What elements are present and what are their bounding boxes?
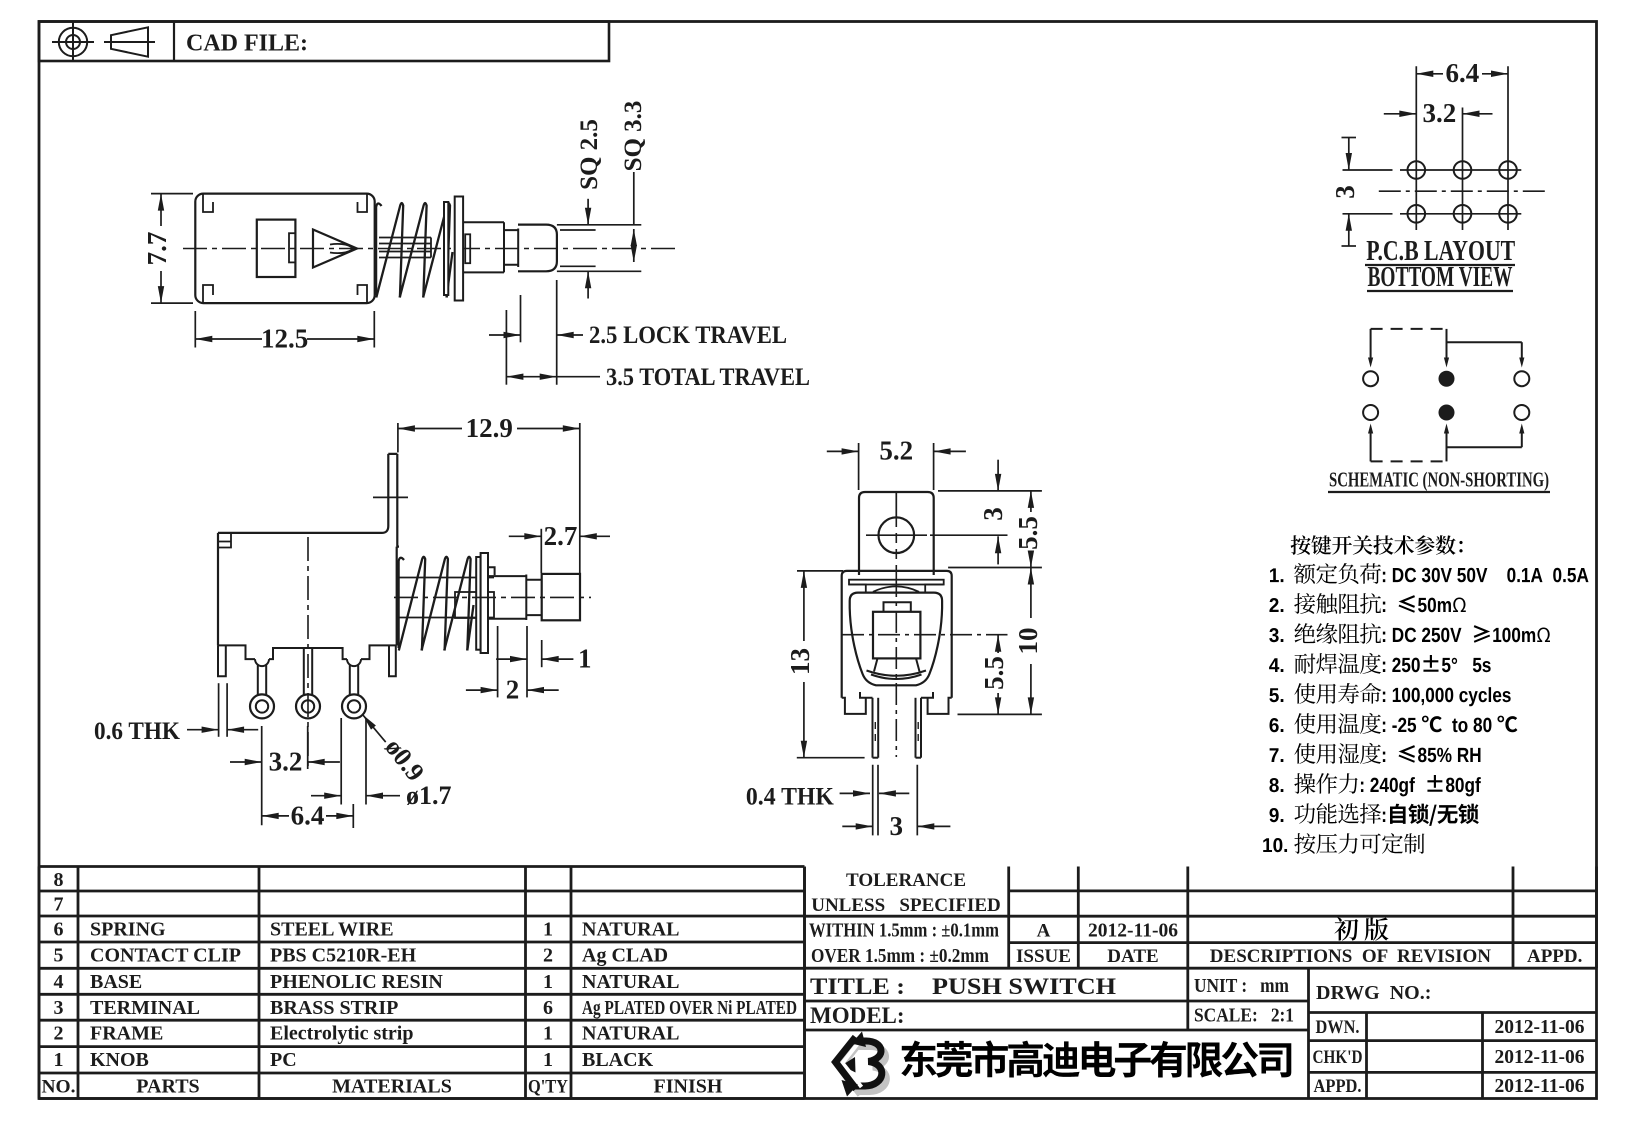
dimension 3 line and arrows (pins) (842, 823, 950, 829)
pcb center line (1379, 190, 1545, 192)
schematic wire middle top with arrow (1444, 329, 1449, 368)
dimension 3.2 pcb line (1384, 111, 1493, 118)
dimension 1 extension lines (498, 626, 542, 697)
svg-text:WITHIN 1.5mm : ±0.1mm: WITHIN 1.5mm : ±0.1mm (809, 921, 999, 942)
svg-text:2: 2 (543, 945, 553, 967)
dimension 13 extension lines (797, 571, 865, 758)
svg-text:FRAME: FRAME (90, 1023, 163, 1045)
svg-text:PC: PC (270, 1049, 297, 1071)
view2 terminal 1 neck (255, 659, 269, 695)
dimension 12.5 line and arrows (195, 336, 374, 342)
svg-text:FINISH: FINISH (654, 1076, 723, 1098)
view2 vertical center line (307, 537, 309, 770)
button extension lines (557, 225, 641, 271)
dimension 6.4 pcb line (1416, 71, 1508, 78)
svg-text:2: 2 (506, 675, 520, 705)
svg-text:2012-11-06: 2012-11-06 (1495, 1017, 1585, 1038)
view1 shaft section (463, 222, 504, 272)
view1 body corner notch top-left (203, 194, 213, 212)
view3 frame lip (849, 580, 944, 585)
dimension 5.2 line and arrows (827, 448, 966, 454)
view2 center line (394, 596, 591, 598)
view2 shaft section (488, 575, 526, 621)
view2 terminal 1 eyelet (250, 694, 274, 718)
dimension 2.7 extension line (540, 529, 542, 573)
view1 body corner notch bottom-right (358, 285, 368, 303)
dimension 1 line and arrows (496, 656, 573, 662)
dimension 0.4 THK arrows (840, 790, 910, 796)
svg-text:Electrolytic strip: Electrolytic strip (270, 1023, 413, 1045)
svg-text:3.2: 3.2 (1423, 98, 1457, 128)
view1 spring washer plates (444, 197, 463, 301)
view3 mounting tab (859, 492, 934, 575)
view2 terminal 3 eyelet (342, 694, 366, 718)
pcb layout pads (1408, 161, 1517, 222)
dimension dia 1.7 extension lines (341, 718, 366, 805)
first-angle projection symbol - cone view (104, 27, 155, 56)
svg-text:1: 1 (543, 971, 553, 993)
svg-text:CAD FILE:: CAD FILE: (186, 31, 308, 57)
view2 terminal 2 eyelet (296, 694, 320, 718)
dimension 7.7 line and arrows (158, 194, 164, 304)
tolerance table text (809, 870, 1178, 967)
svg-text:3: 3 (54, 997, 64, 1019)
svg-text:SQ 3.3: SQ 3.3 (620, 101, 647, 172)
company logo shadow (840, 1043, 886, 1095)
svg-text:TITLE :: TITLE : (810, 974, 905, 999)
svg-text:BOTTOM VIEW: BOTTOM VIEW (1368, 262, 1513, 293)
dimension 5.5 upper line (1028, 491, 1034, 568)
svg-text:BRASS STRIP: BRASS STRIP (270, 997, 398, 1019)
spec item 9 功能选择 (1269, 808, 1278, 822)
svg-text:TERMINAL: TERMINAL (90, 997, 200, 1019)
svg-text:4: 4 (54, 971, 64, 993)
spec item 7 使用湿度 (1270, 748, 1279, 762)
revision descriptions text (1210, 946, 1583, 967)
schematic wire left bottom with arrow (1368, 424, 1373, 462)
view3 right foot (921, 692, 952, 714)
svg-text:APPD.: APPD. (1527, 946, 1582, 967)
svg-text:1: 1 (543, 919, 553, 941)
view3 frame notch right (925, 585, 944, 592)
view2 spring coils (399, 557, 474, 651)
view1 shaft neck (504, 229, 518, 268)
schematic solid wire top (1447, 342, 1525, 367)
svg-text:PHENOLIC RESIN: PHENOLIC RESIN (270, 971, 443, 993)
view1 knob button (518, 225, 557, 272)
spec item 6 使用温度 (1269, 718, 1278, 732)
svg-text:BLACK: BLACK (582, 1049, 654, 1071)
svg-text:2.5 LOCK TRAVEL: 2.5 LOCK TRAVEL (589, 322, 787, 349)
view2 plunger bar through spring (399, 578, 494, 619)
view2 bracket plate (382, 454, 400, 547)
company name 东莞市高迪电子有限公司 (901, 1040, 936, 1077)
svg-text:2012-11-06: 2012-11-06 (1495, 1076, 1585, 1097)
view1 center line (183, 248, 678, 250)
svg-text:NO.: NO. (42, 1077, 76, 1098)
view2 knob button (542, 574, 580, 620)
spec item 1 额定负荷 (1270, 568, 1279, 582)
schematic wire left top with arrow (1368, 329, 1373, 368)
title block grid (805, 968, 1597, 1098)
svg-text:DATE: DATE (1107, 946, 1158, 967)
view3 horizontal center line (842, 634, 1008, 636)
svg-text:APPD.: APPD. (1314, 1076, 1362, 1097)
dimension 3 vertical (tab hole) (995, 460, 1001, 565)
dimension 12.9 extension lines (398, 423, 580, 573)
BOM header row text (42, 1076, 723, 1098)
svg-text:ø1.7: ø1.7 (406, 781, 452, 810)
view1 body corner notch bottom-left (203, 285, 213, 303)
view1 shaft inner detail (465, 234, 470, 263)
view2 shaft neck (526, 580, 541, 615)
svg-text:1: 1 (578, 644, 592, 674)
svg-text:DWN.: DWN. (1316, 1017, 1360, 1038)
schematic dashed knob outline (1371, 329, 1447, 462)
view3 right extension lines (930, 491, 1042, 715)
schematic wire middle bottom with arrow (1444, 424, 1449, 462)
view3 pin left (873, 698, 879, 758)
svg-text:TOLERANCE: TOLERANCE (846, 870, 966, 891)
svg-text:6.4: 6.4 (1446, 58, 1480, 88)
svg-text:10: 10 (1013, 628, 1043, 655)
view1 spring coils (376, 203, 452, 298)
view2 body outline (218, 533, 397, 646)
svg-text:DRWG NO.:: DRWG NO.: (1316, 982, 1431, 1004)
svg-text:5.5: 5.5 (979, 656, 1009, 690)
BOTTOM VIEW label (1367, 262, 1513, 293)
view2 right foot (389, 645, 396, 676)
svg-text:SPRING: SPRING (90, 919, 166, 941)
svg-text:1: 1 (54, 1049, 64, 1071)
spec item 3 绝缘阻抗 (1269, 628, 1278, 642)
company logo mark (836, 1032, 882, 1097)
svg-text:3: 3 (1330, 185, 1360, 199)
svg-text:Ag PLATED OVER Ni PLATED: Ag PLATED OVER Ni PLATED (582, 997, 797, 1019)
svg-text:UNIT : mm: UNIT : mm (1194, 975, 1289, 997)
svg-text:5.5: 5.5 (1013, 516, 1043, 550)
pin extension lines (873, 765, 918, 836)
view3 frame outline (842, 571, 952, 698)
first-angle projection symbol - target circle (52, 23, 94, 62)
dimension 0.6 THK arrows (187, 683, 258, 737)
svg-text:Q'TY: Q'TY (528, 1077, 568, 1098)
view3 base body (850, 593, 942, 686)
svg-text:ISSUE: ISSUE (1016, 946, 1071, 967)
dimension 13 line and arrows (801, 571, 807, 758)
spec item 8 操作力 (1269, 778, 1278, 792)
svg-text:NATURAL: NATURAL (582, 971, 679, 993)
SCHEMATIC label (1328, 468, 1550, 493)
svg-text:MODEL:: MODEL: (810, 1003, 905, 1028)
svg-text:1: 1 (543, 1023, 553, 1045)
svg-text:7.7: 7.7 (142, 232, 172, 266)
dimension 12.5 extension lines (195, 311, 374, 348)
dimension SQ 3.3 arrows (631, 172, 637, 262)
tolerance table grid (805, 867, 1597, 1099)
spec item 2 接触阻抗 (1269, 598, 1278, 612)
view3 vertical center line (895, 575, 897, 757)
svg-text:12.9: 12.9 (466, 413, 513, 443)
svg-text:SCALE: 2:1: SCALE: 2:1 (1194, 1005, 1294, 1027)
view2 body top-left notch (218, 533, 231, 548)
dimension 3 pcb extension lines (1343, 170, 1393, 214)
dimension 7.7 extension lines (151, 194, 193, 304)
view3 tab hole (879, 517, 915, 553)
view3 dome arc (873, 586, 919, 591)
dimension 2.7 line and arrows (509, 533, 610, 539)
view2 left foot (218, 645, 226, 676)
P.C.B LAYOUT label (1365, 236, 1515, 267)
svg-text:DESCRIPTIONS OF REVISION: DESCRIPTIONS OF REVISION (1210, 946, 1491, 967)
svg-text:MATERIALS: MATERIALS (332, 1076, 452, 1098)
dimension dia 0.9 leader (363, 715, 386, 743)
svg-text:SCHEMATIC (NON-SHORTING): SCHEMATIC (NON-SHORTING) (1329, 468, 1549, 492)
dimension 3 pcb line and arrows (1342, 138, 1357, 247)
dimension 2 line and arrows (466, 687, 559, 693)
svg-text:3.5 TOTAL TRAVEL: 3.5 TOTAL TRAVEL (606, 364, 810, 391)
svg-text:8: 8 (54, 869, 64, 891)
BOM table rows text (54, 869, 798, 1071)
CAD FILE title box (39, 22, 609, 62)
schematic solid wire bottom (1447, 424, 1525, 448)
dimension 6.4 extension lines (352, 804, 354, 828)
dimension 3.5 TOTAL TRAVEL (506, 374, 600, 380)
view3 plunger top (884, 602, 911, 612)
dimension 12.9 line (398, 425, 580, 431)
view3 pin right (916, 698, 922, 758)
svg-text:2: 2 (54, 1023, 64, 1045)
dimension 2.5 LOCK TRAVEL (489, 332, 583, 338)
view1 body corner notch top-right (358, 194, 368, 212)
svg-text:BASE: BASE (90, 971, 142, 993)
svg-text:6: 6 (54, 919, 64, 941)
view2 bottom profile (218, 645, 397, 659)
pcb layout pad crosshair lines (1400, 66, 1521, 230)
svg-text:PUSH SWITCH: PUSH SWITCH (932, 974, 1116, 999)
view2 terminal 3 neck (347, 659, 361, 695)
svg-text:6.4: 6.4 (291, 800, 325, 830)
spec title 按键开关技术参数 (1291, 535, 1311, 555)
svg-text:5: 5 (54, 945, 64, 967)
svg-text:UNLESS SPECIFIED: UNLESS SPECIFIED (811, 895, 1001, 916)
svg-text:Ag CLAD: Ag CLAD (582, 945, 668, 967)
svg-text:12.5: 12.5 (261, 324, 308, 354)
svg-text:5.2: 5.2 (879, 436, 913, 466)
dimension 5.5 lower line (995, 635, 1001, 715)
svg-text:7: 7 (54, 894, 64, 916)
spec item 5 使用寿命 (1269, 688, 1278, 702)
view2 bracket tick mark (373, 496, 408, 498)
svg-text:NATURAL: NATURAL (582, 919, 679, 941)
view3 frame notch left (849, 585, 866, 592)
svg-text:NATURAL: NATURAL (582, 1023, 679, 1045)
view2 washer plates (476, 553, 488, 653)
revision row 初版 (1334, 917, 1358, 940)
svg-text:OVER 1.5mm : ±0.2mm: OVER 1.5mm : ±0.2mm (811, 946, 989, 967)
svg-text:3: 3 (978, 507, 1008, 521)
dimension 5.2 extension lines (859, 443, 934, 490)
dimension 10 line (1028, 568, 1034, 715)
title block text (810, 974, 1585, 1097)
view1 plunger rod through spring (379, 238, 431, 258)
view1 switch body outline (195, 194, 374, 304)
svg-text:1: 1 (543, 1049, 553, 1071)
svg-text:KNOB: KNOB (90, 1049, 149, 1071)
svg-text:0.4 THK: 0.4 THK (746, 784, 835, 811)
svg-text:3.2: 3.2 (269, 747, 303, 777)
svg-text:2.7: 2.7 (544, 521, 578, 551)
spec item 10 按压力可定制 (1263, 838, 1272, 852)
svg-text:6: 6 (543, 997, 553, 1019)
spec item 4 耐焊温度 (1269, 658, 1279, 672)
view3 left foot (842, 692, 873, 714)
dimension dia 1.7 line and arrows (311, 793, 400, 799)
lock travel extension lines (506, 280, 556, 385)
svg-text:2012-11-06: 2012-11-06 (1088, 921, 1178, 942)
dimension 6.4 line and arrows (262, 813, 354, 819)
schematic terminal circles (1363, 371, 1529, 421)
view3 tab hole crosshair (866, 492, 927, 575)
view1 latch pointer triangle (313, 230, 357, 268)
svg-text:0.6 THK: 0.6 THK (94, 718, 181, 745)
svg-text:3: 3 (890, 811, 904, 841)
dimension SQ 2.5 arrows (585, 199, 591, 299)
view3 plunger skirt (871, 658, 922, 679)
view2 terminal 2 middle neck (304, 648, 312, 695)
dimension 3.2 extension lines (262, 726, 308, 825)
svg-text:SQ 2.5: SQ 2.5 (576, 119, 603, 190)
svg-text:CONTACT CLIP: CONTACT CLIP (90, 945, 241, 967)
view3 plunger body (873, 612, 920, 659)
view1 knob window (257, 220, 296, 277)
dimension 3.2 line and arrows (230, 759, 340, 765)
svg-text:STEEL WIRE: STEEL WIRE (270, 919, 394, 941)
BOM table grid (39, 867, 805, 1099)
svg-text:2012-11-06: 2012-11-06 (1495, 1047, 1585, 1068)
svg-text:13: 13 (785, 648, 815, 675)
svg-text:PARTS: PARTS (136, 1076, 199, 1098)
svg-text:PBS C5210R-EH: PBS C5210R-EH (270, 945, 417, 967)
svg-text:A: A (1037, 921, 1051, 942)
svg-text:CHK'D: CHK'D (1313, 1047, 1363, 1068)
view2 shaft top step (488, 567, 495, 575)
